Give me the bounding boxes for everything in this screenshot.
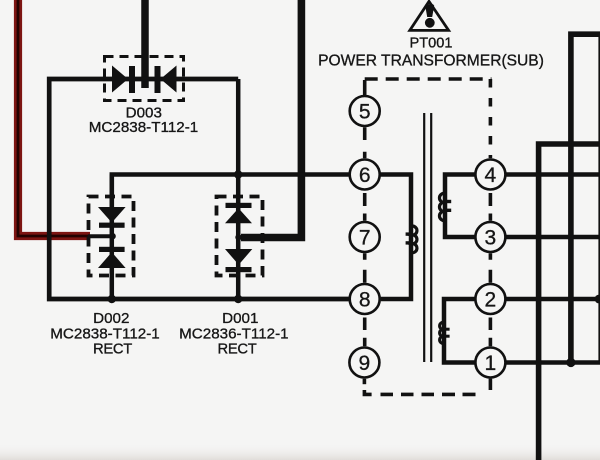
wire: red supply bus (left edge, to D002 center)	[18, 0, 90, 236]
junction: right bus on terminal 1 wire	[566, 358, 575, 367]
junction: top rail / D001 / D003 node	[234, 170, 242, 178]
transformer outline dashes 6-7	[363, 193, 367, 221]
warning symbol (caution triangle)	[410, 1, 449, 30]
junction: D001 bottom on bottom rail	[234, 295, 242, 303]
svg-text:MC2838-T112-1: MC2838-T112-1	[89, 119, 198, 136]
wire: top rail from D002 to terminal 6	[112, 175, 349, 208]
transformer outline below terminal 9 and bottom edge	[363, 379, 367, 385]
terminal 7	[350, 222, 380, 252]
junction: D001 common anode tap	[235, 234, 241, 240]
svg-text:PT001: PT001	[410, 36, 453, 52]
svg-text:MC2838-T112-1: MC2838-T112-1	[50, 325, 159, 342]
transformer outline dashes 5-6	[363, 127, 367, 158]
wire: vertical through D002 to bottom rail	[110, 175, 115, 300]
svg-text:9: 9	[359, 352, 371, 375]
transformer outline dashes 3-2	[489, 253, 493, 282]
diode D001 top (cathode up)	[225, 203, 252, 224]
terminal 2	[475, 284, 505, 314]
junction: D002 common cathode tap	[109, 233, 115, 239]
svg-text:RECT: RECT	[93, 342, 132, 358]
primary winding coil	[406, 226, 417, 253]
transformer PT001 core	[424, 113, 431, 362]
terminal 3	[475, 222, 505, 252]
terminal 4	[475, 160, 505, 190]
terminal 1	[475, 348, 505, 378]
svg-text:4: 4	[485, 164, 497, 187]
svg-text:POWER TRANSFORMER(SUB): POWER TRANSFORMER(SUB)	[318, 53, 544, 70]
svg-text:RECT: RECT	[217, 342, 256, 358]
dual diode D003 package outline	[105, 57, 184, 101]
transformer outline dashes 7-8	[363, 253, 367, 282]
wire: D003 row, left branch and bottom rail to terminal 8	[49, 79, 349, 299]
transformer outline dashes 4-3	[489, 193, 493, 221]
dual diode D002 package outline	[89, 197, 134, 276]
transformer outline stub below terminal 1	[489, 379, 493, 390]
wire: link red bus to D002 center tap	[88, 234, 113, 238]
svg-text:MC2836-T112-1: MC2836-T112-1	[179, 325, 288, 342]
junction: terminal 2 wire at right edge	[595, 295, 600, 304]
wire: terminal 2 to right edge	[506, 297, 600, 302]
terminal 6	[350, 160, 380, 190]
svg-text:5: 5	[359, 100, 371, 123]
terminal 9	[349, 348, 379, 378]
secondary winding (terminals 2-1) wire	[444, 299, 475, 363]
wire: heavy bus from top to D003 center	[141, 0, 149, 88]
junction: D002 bottom on bottom rail	[108, 295, 116, 303]
svg-text:1: 1	[485, 352, 497, 375]
transformer outline dashes above terminal 4	[489, 79, 493, 158]
svg-text:2: 2	[485, 288, 497, 311]
svg-text:6: 6	[359, 164, 371, 187]
transformer outline dashes 8-9	[363, 318, 367, 347]
svg-text:3: 3	[485, 226, 497, 249]
wire: terminal 1 to right edge	[506, 360, 600, 365]
transformer package dashed outline: top edge	[365, 77, 492, 81]
diode D003 left half	[112, 66, 135, 94]
diode D001 bottom (cathode down)	[225, 249, 252, 272]
diode D002 bottom (cathode up)	[98, 247, 126, 268]
wire: terminal 3 to right edge	[506, 235, 600, 240]
transformer outline stub above terminal 5	[363, 80, 367, 95]
primary winding (terminals 6-8) wire	[381, 175, 412, 300]
svg-text:8: 8	[359, 288, 371, 311]
wire: right vertical bus from top edge down to terminal-1 node	[571, 34, 600, 362]
wire: terminal 4 to right edge	[506, 172, 600, 177]
terminal 5	[350, 96, 380, 126]
diode D003 right half	[155, 66, 177, 94]
svg-text:7: 7	[359, 226, 371, 249]
terminal 8	[350, 284, 380, 314]
secondary winding coil (2-1)	[440, 322, 450, 343]
secondary winding coil (4-3)	[439, 193, 451, 220]
wire: right-edge vertical bus (clipped at page edge)	[598, 34, 600, 362]
diode D002 top (cathode down)	[98, 207, 126, 228]
wire: heavy bus from top down to D001 center	[241, 0, 301, 238]
transformer outline dashes 2-1	[489, 318, 493, 347]
secondary winding (terminals 4-3) wire	[445, 175, 475, 238]
wire: second right vertical bus to bottom edge	[539, 144, 600, 460]
wire: vertical through D001 from D003 row to bottom rail	[236, 79, 241, 299]
dual diode D001 package outline	[217, 197, 263, 276]
